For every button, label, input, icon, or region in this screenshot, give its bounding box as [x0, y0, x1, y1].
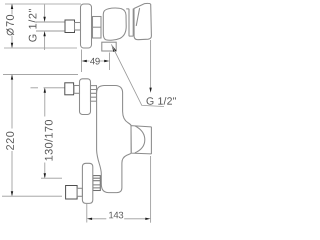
escutcheon side view [80, 79, 91, 115]
arrow 130/170 down [44, 173, 46, 178]
dimension 49 ext line left [81, 50, 83, 73]
label 49 [90, 58, 100, 65]
label 143 [109, 212, 123, 219]
neck rings top view [93, 17, 102, 39]
reference line 130/170 bottom [41, 177, 62, 179]
ext line 143 right [150, 156, 152, 223]
label d70 [6, 15, 14, 35]
lever arm top view [134, 3, 151, 39]
lever arm inner edge [136, 8, 139, 26]
thread line upper (inlet pipe) [35, 21, 65, 23]
thread stub side view [74, 86, 80, 94]
cap dome arc [135, 126, 145, 153]
label G 1/2 side view [147, 97, 177, 105]
dimension line 49 [87, 60, 105, 62]
outlet ring barrel side view [93, 176, 101, 191]
reference line 220 top [3, 74, 78, 76]
dimension 49 ext line right [109, 53, 111, 71]
ext line 143 left [86, 204, 88, 223]
label 130/170 [45, 120, 53, 161]
arrow 143 left [87, 218, 92, 220]
dimension line G1/2 vertical [44, 5, 46, 51]
arrow 49 right [104, 60, 109, 62]
leader arrow to hand shower outlet [111, 44, 116, 52]
cartridge rings top view [126, 9, 133, 37]
projection line from arm tip [150, 40, 152, 89]
union nut side view [65, 83, 74, 95]
label G 1/2 top view [28, 9, 36, 42]
arrow 130/170 up [44, 88, 46, 93]
dimension line 130/170 [44, 89, 46, 178]
dimension line 220 [11, 75, 13, 195]
outlet pipe side view [82, 163, 92, 203]
arrow d70 down [11, 43, 13, 48]
hose nut side view [66, 186, 78, 200]
arrow 49 left [82, 60, 87, 62]
arrow G1/2 up [43, 31, 45, 36]
connector rings side view [91, 86, 97, 102]
dimension line d70 [11, 5, 13, 48]
leader line G1/2 [111, 44, 164, 106]
lever body top view [103, 8, 126, 40]
arrow 220 down [11, 191, 13, 196]
arrow G1/2 down [43, 17, 45, 22]
arrow 143 right [145, 218, 150, 220]
reference line 220 bottom [2, 195, 62, 197]
mixer body side view [97, 86, 132, 193]
thread stub top view [75, 23, 81, 31]
hose stub [77, 188, 82, 196]
barrel rings [93, 178, 101, 188]
escutcheon top view [81, 4, 92, 48]
outlet stub top view [102, 42, 116, 51]
thread line lower (inlet pipe) [36, 30, 65, 32]
dimension line 143 [92, 218, 147, 220]
cartridge cap side view [131, 126, 151, 154]
arrow d70 up [11, 4, 13, 9]
reference line 130/170 top (dashed) [31, 87, 65, 89]
union nut top view [65, 20, 75, 33]
arrow 220 up [11, 74, 13, 79]
extension line bottom (d70 lower reference) [4, 47, 77, 49]
arrow projection down [149, 88, 151, 93]
label 220 [6, 132, 14, 150]
extension line top (d70 upper reference) [5, 3, 81, 5]
